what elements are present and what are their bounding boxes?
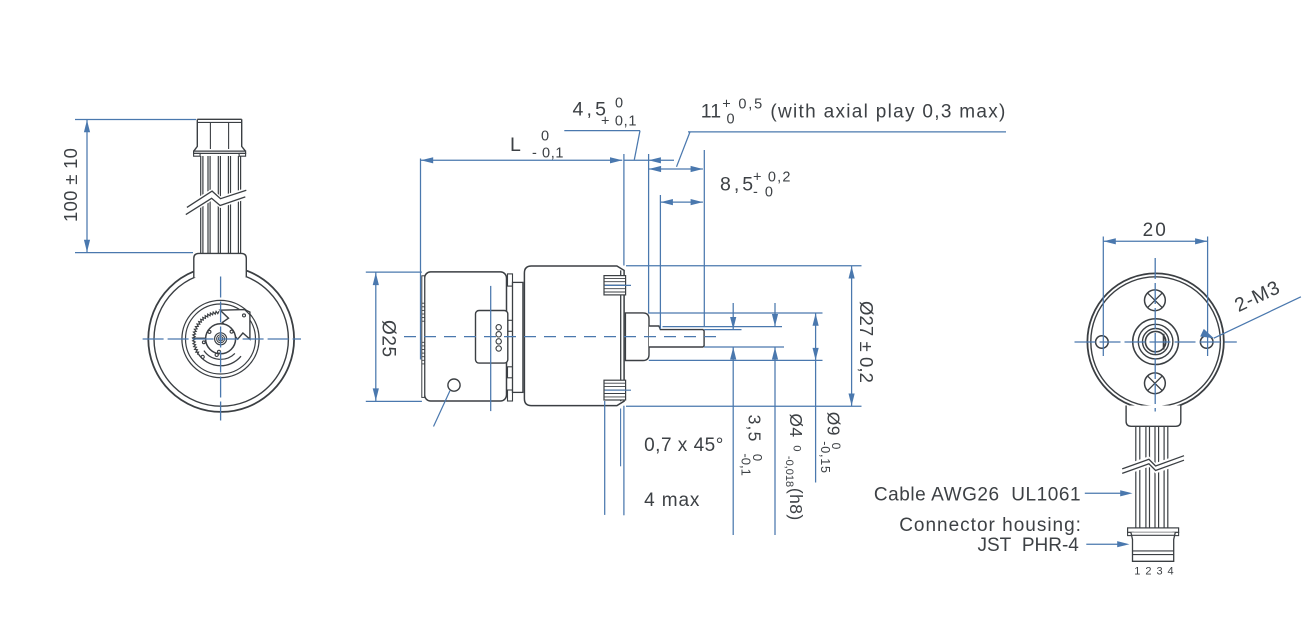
svg-text:0: 0 xyxy=(541,129,549,145)
centerline vertical (rear view) xyxy=(1154,258,1156,412)
dimension Ø4 line xyxy=(774,303,776,326)
extension line boss end xyxy=(648,154,650,313)
motor-gearbox tabs xyxy=(508,274,513,286)
dimension Ø27 extension lines xyxy=(626,265,862,267)
svg-text:4 max: 4 max xyxy=(644,490,700,511)
screw boss top xyxy=(604,276,626,295)
svg-text:+ 0,5: + 0,5 xyxy=(722,97,764,113)
dimension L line xyxy=(421,159,622,161)
extension line motor left xyxy=(420,159,422,360)
rotor rings (front view) xyxy=(182,300,259,377)
dimension Ø9 line xyxy=(815,313,817,482)
svg-text:-0,15: -0,15 xyxy=(818,441,832,474)
svg-text:-0,1: -0,1 xyxy=(738,453,753,475)
label 3,5 with tolerance (rotated) xyxy=(738,415,765,476)
dimension Ø25 line xyxy=(375,272,377,401)
dimension 20 extension lines xyxy=(1102,237,1104,357)
svg-text:- 0: - 0 xyxy=(753,185,774,201)
motor body (side view) xyxy=(425,272,507,401)
svg-text:Ø27 ± 0,2: Ø27 ± 0,2 xyxy=(856,301,877,383)
connector (front view, JST plug at cable end) xyxy=(194,119,246,151)
dimension 11 line xyxy=(649,168,703,170)
dimension 100 ± 10 line xyxy=(86,120,88,253)
svg-text:0,7 x 45°: 0,7 x 45° xyxy=(644,435,724,456)
mounting hole right xyxy=(1200,336,1213,349)
hub holes xyxy=(208,330,211,333)
cable grommet (front view) xyxy=(194,253,247,277)
cable break symbol (front view) xyxy=(186,188,247,217)
label Ø25 (rotated) xyxy=(378,320,399,358)
pawl hole xyxy=(243,314,246,317)
svg-text:20: 20 xyxy=(1143,220,1168,241)
label plate with solder pads xyxy=(476,311,508,364)
leader to connector xyxy=(1086,543,1118,545)
dimension 4,5 line xyxy=(624,159,649,161)
label Ø4 -0,018 (h8) (rotated) xyxy=(783,413,806,520)
extension line screw boss xyxy=(604,401,606,515)
svg-text:Connector housing:: Connector housing: xyxy=(899,515,1082,536)
screw hole top (X) xyxy=(1145,290,1166,311)
svg-text:Ø4: Ø4 xyxy=(786,413,806,437)
leader 11 xyxy=(688,131,1006,133)
neck ring between motor and gearbox xyxy=(513,282,523,392)
centerline horizontal (front view) xyxy=(143,338,301,340)
svg-text:JST PHR-4: JST PHR-4 xyxy=(978,535,1080,556)
gear teeth (front view) xyxy=(193,311,221,355)
leader 2-M3 xyxy=(1214,297,1301,338)
svg-text:100 ± 10: 100 ± 10 xyxy=(60,148,81,222)
screw boss centerline bottom xyxy=(605,389,631,391)
svg-text:8,5: 8,5 xyxy=(720,174,756,196)
dimension 100 ± 10 extension lines xyxy=(75,119,196,121)
label Ø9 -0,15 (rotated) xyxy=(818,412,844,474)
pawl plate (front view) xyxy=(220,310,250,340)
screw boss centerline top xyxy=(605,284,631,286)
svg-text:0: 0 xyxy=(727,112,735,128)
mounting hole left xyxy=(1096,336,1109,349)
dimension 3,5 line xyxy=(732,303,734,329)
screw boss bottom xyxy=(604,380,626,400)
svg-text:Cable AWG26 UL1061: Cable AWG26 UL1061 xyxy=(874,484,1081,505)
motor body outer circle (front view) xyxy=(148,266,294,412)
hole on motor housing xyxy=(448,379,460,391)
gear sector edge xyxy=(192,337,206,339)
svg-text:(with axial play 0,3 max): (with axial play 0,3 max) xyxy=(770,102,1006,123)
svg-text:0: 0 xyxy=(615,96,623,112)
hub disc (front view) xyxy=(206,324,236,354)
motor outer circle (rear view) xyxy=(1087,273,1223,409)
svg-text:+ 0,1: + 0,1 xyxy=(601,114,637,130)
cable grommet (rear view) xyxy=(1126,406,1181,427)
svg-text:- 0,1: - 0,1 xyxy=(532,146,564,162)
svg-text:-0,018: -0,018 xyxy=(783,456,795,487)
centerline horizontal (rear view) xyxy=(1075,341,1237,343)
svg-text:(h8): (h8) xyxy=(786,488,806,521)
svg-text:+ 0,2: + 0,2 xyxy=(753,170,792,186)
leader 4,5 xyxy=(564,130,640,132)
extension line gearbox face xyxy=(623,154,625,266)
svg-text:Ø9: Ø9 xyxy=(823,412,843,436)
inner arcs (front view) xyxy=(196,350,241,365)
dimension Ø4 extension lines xyxy=(663,326,783,328)
dimension Ø25 extension lines xyxy=(366,271,422,273)
wire (front view cable leads) xyxy=(200,156,202,253)
holes on rotor disc xyxy=(202,341,205,344)
extension line flat start xyxy=(659,195,661,329)
shaft flat chord xyxy=(1163,334,1165,350)
leader from hole xyxy=(434,391,451,427)
pad centerline through label plate xyxy=(490,286,492,411)
svg-text:L: L xyxy=(510,134,521,156)
gearbox body (side view) xyxy=(524,266,624,406)
dimension 20 line xyxy=(1103,240,1207,242)
wires (rear view cable) xyxy=(1135,426,1137,528)
crimp marks left edge xyxy=(422,302,425,304)
dimension Ø27 line xyxy=(851,266,853,406)
cable break symbol (rear view) xyxy=(1122,453,1184,477)
label Ø27 ± 0,2 (rotated) xyxy=(856,301,877,383)
leader to cable xyxy=(1085,492,1122,494)
shaft center rings (front view) xyxy=(215,333,227,345)
output shaft xyxy=(649,326,704,347)
dimension Ø9 extension lines xyxy=(648,312,823,314)
extension line below face xyxy=(623,406,625,516)
svg-text:Ø25: Ø25 xyxy=(378,320,399,358)
connector housing (rear view) xyxy=(1135,528,1137,535)
svg-text:11: 11 xyxy=(701,101,721,123)
dimension 3,5 extension line xyxy=(704,329,741,331)
svg-text:1 2 3 4: 1 2 3 4 xyxy=(1134,566,1174,578)
svg-text:3,5: 3,5 xyxy=(744,415,764,443)
extension line shaft tip xyxy=(703,150,705,326)
svg-text:0: 0 xyxy=(790,445,802,451)
shaft bearing boss xyxy=(625,313,649,361)
motor end-cap band xyxy=(422,276,425,398)
centerline vertical (front view) xyxy=(220,277,222,421)
centerline (side view) xyxy=(404,336,718,338)
rear hub rings xyxy=(1133,319,1179,365)
dimension 8,5 line xyxy=(661,201,703,203)
gearbox face plate xyxy=(620,270,622,401)
